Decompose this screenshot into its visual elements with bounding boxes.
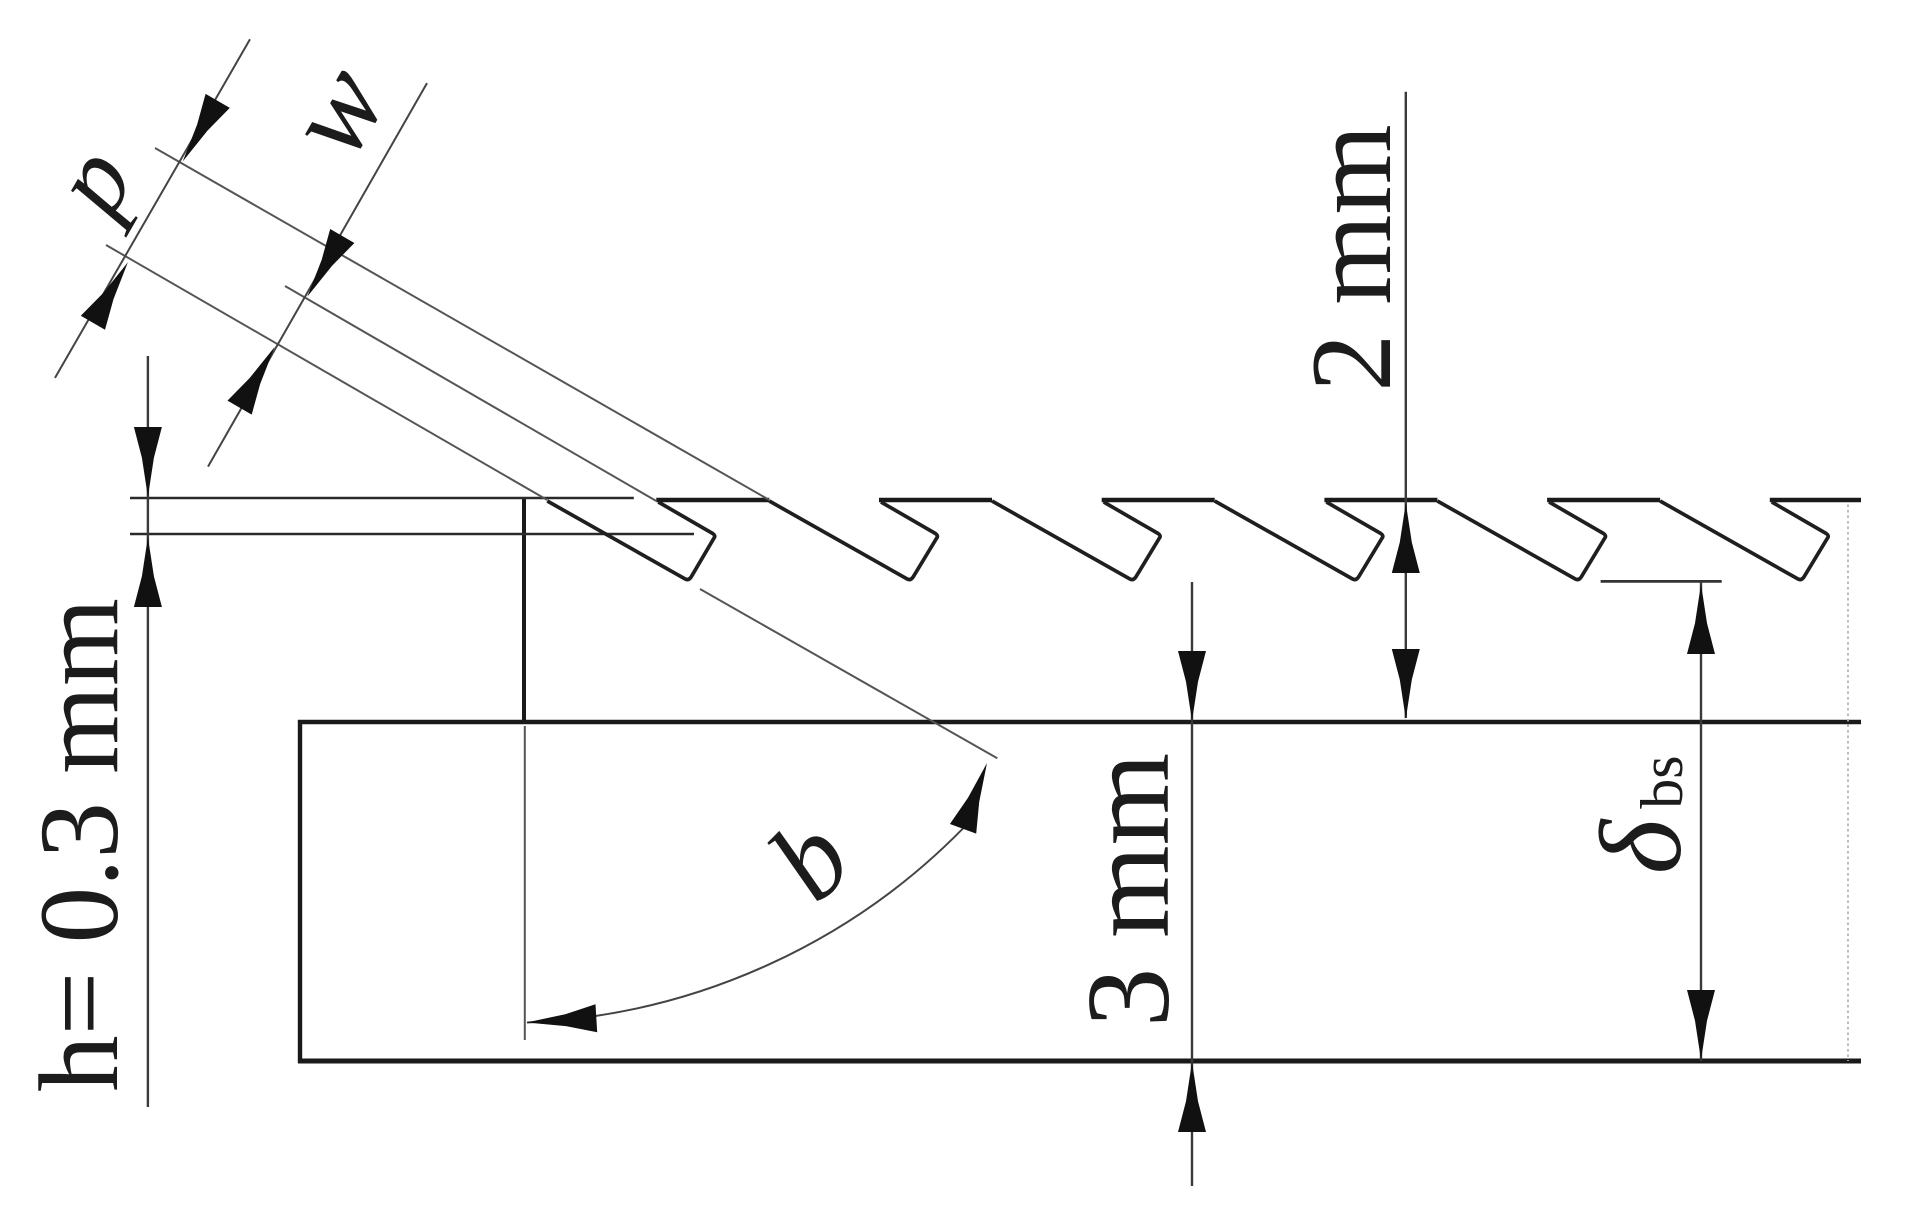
tooth 1 top surface xyxy=(656,498,769,503)
dimension 2mm upper arrowhead xyxy=(1392,503,1420,573)
tooth 5 top surface xyxy=(1547,498,1660,503)
extension line of groove 1 ceiling (middle diagonal) xyxy=(285,286,656,501)
dimension w arrowhead lower xyxy=(228,347,275,415)
groove bottom level tick line xyxy=(1601,580,1722,583)
groove 3 profile (ceiling, end wall, floor) xyxy=(992,501,1160,580)
angle b arc lower arrowhead xyxy=(527,1004,598,1032)
dimension w axis line xyxy=(208,83,427,467)
svg-text:3 mm: 3 mm xyxy=(1062,753,1194,1027)
angle b arc xyxy=(527,818,973,1023)
dimension p arrowhead lower xyxy=(81,262,128,330)
dimension p axis line xyxy=(55,39,250,378)
dimension 3mm upper arrowhead xyxy=(1178,651,1206,721)
tooth 2 top surface xyxy=(879,498,992,503)
substrate plate rectangle top edge xyxy=(298,720,1861,724)
dimension 2mm vertical line xyxy=(1405,92,1407,718)
tooth 6 top surface xyxy=(1770,498,1861,503)
dimension h lower arrowhead xyxy=(134,537,162,607)
svg-text:δ: δ xyxy=(1577,818,1706,874)
tooth 4 top surface xyxy=(1324,498,1437,503)
substrate plate rectangle bottom edge xyxy=(298,1059,1861,1064)
tooth tip depth reference line (h) xyxy=(130,533,694,536)
svg-text:2 mm: 2 mm xyxy=(1288,124,1416,391)
grooved layer left face vertical line xyxy=(522,498,526,722)
dimension h upper arrowhead xyxy=(134,427,162,497)
groove 6 profile (ceiling, end wall, floor) xyxy=(1660,501,1828,580)
dimension 3mm vertical line xyxy=(1191,582,1193,1186)
dimension delta_bs lower arrowhead xyxy=(1687,990,1715,1060)
extension line of groove 1 floor (lower diagonal) xyxy=(106,245,547,500)
angle b vertical reference line xyxy=(524,726,526,1040)
dimension w arrowhead upper xyxy=(307,229,354,297)
angle b arc upper arrowhead xyxy=(950,763,987,834)
dimension p arrowhead upper xyxy=(183,94,230,162)
dimension delta_bs vertical line xyxy=(1700,581,1702,1061)
groove 5 profile (ceiling, end wall, floor) xyxy=(1437,501,1605,580)
dimension 2mm lower arrowhead xyxy=(1392,649,1420,719)
substrate plate rectangle left edge xyxy=(298,720,302,1063)
groove 2 profile (ceiling, end wall, floor) xyxy=(769,501,937,580)
break line at right edge (thin gray dotted) xyxy=(1847,499,1849,1061)
dimension 3mm lower arrowhead xyxy=(1178,1062,1206,1132)
flat top surface reference line xyxy=(130,497,634,500)
groove 1 profile (ceiling, end wall, floor) xyxy=(547,501,714,580)
tooth 3 top surface xyxy=(1102,498,1215,503)
svg-text:h= 0.3 mm: h= 0.3 mm xyxy=(17,598,142,1092)
angle b groove-direction reference line xyxy=(700,589,997,758)
dimension delta_bs upper arrowhead xyxy=(1687,584,1715,654)
groove 4 profile (ceiling, end wall, floor) xyxy=(1215,501,1383,580)
svg-text:bs: bs xyxy=(1629,755,1695,808)
extension line of groove 2 floor (upper long diagonal) xyxy=(155,148,769,500)
dimension h vertical line xyxy=(147,356,149,1107)
